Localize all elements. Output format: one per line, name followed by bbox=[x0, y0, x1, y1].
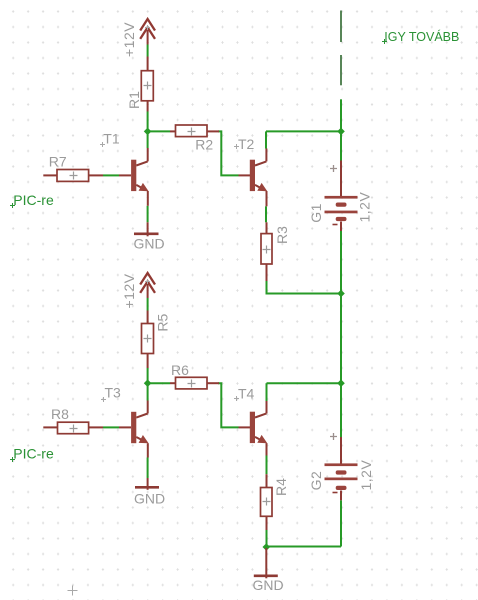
svg-text:1,2V: 1,2V bbox=[358, 460, 374, 491]
svg-text:G1: G1 bbox=[308, 203, 324, 223]
svg-text:T3: T3 bbox=[105, 385, 122, 401]
svg-text:R8: R8 bbox=[51, 406, 69, 422]
svg-text:T4: T4 bbox=[238, 386, 255, 402]
svg-text:T1: T1 bbox=[103, 131, 120, 147]
svg-text:R2: R2 bbox=[195, 137, 213, 153]
svg-text:IGY TOVÁBB: IGY TOVÁBB bbox=[384, 29, 459, 44]
svg-text:G2: G2 bbox=[308, 471, 324, 491]
svg-text:GND: GND bbox=[134, 236, 165, 252]
svg-text:GND: GND bbox=[253, 577, 284, 593]
svg-text:1,2V: 1,2V bbox=[357, 192, 373, 223]
svg-text:R7: R7 bbox=[49, 154, 67, 170]
svg-text:PIC-re: PIC-re bbox=[13, 445, 54, 461]
svg-text:+12V: +12V bbox=[121, 22, 137, 57]
svg-text:R6: R6 bbox=[171, 362, 189, 378]
svg-text:T2: T2 bbox=[238, 136, 255, 152]
svg-text:R5: R5 bbox=[155, 313, 171, 331]
svg-text:R1: R1 bbox=[126, 91, 142, 109]
svg-text:R4: R4 bbox=[273, 478, 289, 496]
svg-text:PIC-re: PIC-re bbox=[13, 192, 54, 208]
svg-text:GND: GND bbox=[134, 491, 165, 507]
svg-text:+12V: +12V bbox=[121, 273, 137, 308]
svg-text:R3: R3 bbox=[274, 226, 290, 244]
